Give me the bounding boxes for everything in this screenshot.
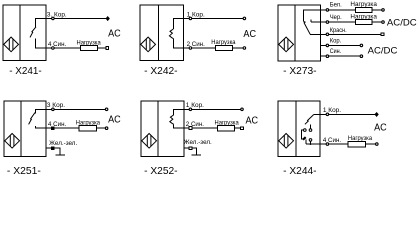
- wire 4 end circle: [376, 143, 379, 146]
- wire 1 brown: [183, 17, 243, 19]
- sensor body divider: [295, 101, 297, 156]
- terminal earth socket: [52, 147, 55, 150]
- wire 3 end plug: [106, 17, 109, 21]
- proximity sensor symbol (diamond): [142, 134, 157, 149]
- switch lever (NO contact): [30, 27, 36, 38]
- NC contact top stub: [173, 18, 183, 29]
- changeover lever: [304, 22, 311, 35]
- wire 2 end circle: [243, 47, 246, 50]
- diamond inner bar right: [13, 136, 15, 147]
- contact circle upper-left: [304, 129, 307, 132]
- terminal 2 socket: [189, 127, 192, 130]
- load resistor white: [356, 7, 372, 12]
- terminal 1 circle: [189, 17, 192, 20]
- svg-text:Нагрузка: Нагрузка: [215, 120, 240, 126]
- wire 3 end circle: [105, 108, 108, 111]
- wire 2 after load: [235, 127, 241, 129]
- sensor body divider: [157, 101, 159, 156]
- diamond inner bar right: [150, 136, 152, 147]
- svg-text:1 Кор.: 1 Кор.: [187, 12, 206, 18]
- svg-text:Бел.: Бел.: [330, 3, 342, 9]
- svg-text:Нагрузка: Нагрузка: [350, 14, 377, 20]
- wire 1 end plug: [375, 113, 378, 117]
- proximity sensor symbol (diamond): [4, 37, 19, 52]
- wire 4 blue: [320, 143, 348, 145]
- svg-text:Нагрузка: Нагрузка: [348, 136, 373, 142]
- svg-text:AC/DC: AC/DC: [387, 18, 417, 28]
- switch lever (NO contact): [29, 113, 35, 125]
- earth wire yellow-green: [184, 148, 196, 154]
- terminal 2 circle: [189, 47, 192, 50]
- wire 4 end socket: [106, 47, 109, 50]
- svg-text:Жел.-зел.: Жел.-зел.: [184, 140, 212, 146]
- sensor body divider: [157, 5, 159, 61]
- wire black: [320, 21, 355, 23]
- wire 4 after load: [98, 47, 106, 49]
- load resistor: [218, 125, 235, 130]
- load resistor: [348, 141, 366, 146]
- svg-text:AC: AC: [374, 123, 387, 134]
- black wire fixed contact: [311, 19, 320, 22]
- sensor body X242: [140, 5, 183, 61]
- svg-text:AC/DC: AC/DC: [368, 46, 398, 56]
- svg-text:- X251-: - X251-: [7, 166, 41, 177]
- svg-text:- X242-: - X242-: [144, 66, 178, 77]
- contact circle upper-right: [309, 129, 312, 132]
- wire 4 blue: [46, 47, 81, 49]
- svg-text:2 Син.: 2 Син.: [186, 122, 205, 128]
- wire blue end circle: [360, 55, 363, 58]
- load resistor: [79, 126, 97, 131]
- diamond inner bar left: [145, 39, 147, 50]
- diamond inner bar left: [9, 136, 11, 147]
- terminal circle white: [326, 9, 329, 12]
- sensor body divider: [19, 5, 21, 61]
- diamond inner bar left: [146, 136, 148, 147]
- terminal 3 circle: [52, 108, 55, 111]
- wire red: [320, 33, 381, 35]
- wire white end circle: [382, 9, 385, 12]
- sensor body divider: [20, 101, 22, 156]
- contact circle lower-right: [309, 139, 312, 142]
- switch contact bottom stub: [36, 39, 46, 48]
- terminal 1 circle: [326, 113, 329, 116]
- wire brown end circle: [360, 44, 363, 47]
- svg-text:Нагрузка: Нагрузка: [350, 2, 377, 8]
- svg-text:Чер.: Чер.: [330, 15, 342, 21]
- load resistor: [81, 46, 98, 51]
- ac output lever: [305, 114, 314, 124]
- svg-text:4 Син.: 4 Син.: [48, 122, 67, 128]
- wire 2 after load: [232, 47, 243, 49]
- NC contact top stub: [174, 109, 184, 115]
- diamond inner bar right: [287, 39, 289, 50]
- proximity sensor symbol (diamond): [279, 134, 294, 149]
- wire 2 end socket: [241, 127, 244, 130]
- wire 2 blue: [184, 127, 218, 129]
- svg-text:AC: AC: [108, 29, 121, 40]
- svg-text:3. Кор.: 3. Кор.: [47, 12, 67, 18]
- proximity sensor symbol (diamond): [279, 37, 294, 52]
- sensor body X241: [3, 5, 46, 61]
- svg-text:3 Кор.: 3 Кор.: [47, 103, 66, 109]
- bracket left branch: [302, 130, 304, 139]
- diamond inner bar right: [12, 39, 14, 50]
- wire white: [320, 9, 355, 11]
- terminal circle red: [326, 33, 329, 36]
- wire 2 blue: [183, 47, 215, 49]
- diamond inner bar right: [149, 39, 151, 50]
- wire 1 end circle: [243, 17, 246, 20]
- NC contact zigzag lever: [170, 115, 174, 124]
- ac output wire 1 stub: [314, 113, 320, 115]
- svg-text:- X241-: - X241-: [9, 66, 42, 77]
- wire 4 end circle: [105, 127, 108, 130]
- wire red end socket: [381, 33, 384, 36]
- svg-text:- X252-: - X252-: [144, 166, 178, 177]
- earth bar: [56, 154, 66, 156]
- terminal earth socket: [189, 147, 192, 150]
- common branch to red wire: [310, 33, 320, 35]
- diamond inner bar left: [283, 39, 285, 50]
- changeover contact: white wire branch: [304, 10, 321, 22]
- svg-text:Нагрузка: Нагрузка: [77, 40, 102, 46]
- wire brown: [320, 44, 360, 46]
- svg-text:Нагрузка: Нагрузка: [211, 40, 236, 46]
- terminal 4 circle: [326, 143, 329, 146]
- wire black end circle: [382, 21, 385, 24]
- NC contact bottom stub: [174, 124, 184, 128]
- svg-text:Красн.: Красн.: [330, 28, 347, 34]
- svg-text:4 Син.: 4 Син.: [48, 42, 67, 48]
- wire 3 brown: [46, 17, 106, 19]
- earth bar: [191, 154, 201, 156]
- wire 4 blue: [46, 127, 79, 129]
- diamond inner bar right: [287, 136, 289, 147]
- sensor body X252: [141, 101, 184, 156]
- svg-text:2 Син.: 2 Син.: [187, 42, 206, 48]
- wire black after load: [372, 21, 382, 23]
- switch contact top stub: [35, 109, 46, 113]
- sensor body divider: [294, 5, 296, 61]
- terminal circle blue: [326, 55, 329, 58]
- wire blue: [320, 55, 360, 57]
- sensor body X273: [278, 5, 320, 61]
- wire 1 brown: [320, 113, 375, 115]
- terminal 4 socket: [52, 127, 55, 130]
- svg-text:- X244-: - X244-: [283, 166, 317, 177]
- NC contact zigzag lever: [169, 29, 173, 39]
- svg-text:Жел.-зел.: Жел.-зел.: [49, 141, 77, 147]
- proximity sensor symbol (diamond): [5, 134, 20, 149]
- wire 1 brown: [184, 108, 241, 110]
- svg-text:AC: AC: [243, 29, 256, 40]
- wire 3 brown: [46, 108, 105, 110]
- load resistor black: [356, 20, 372, 25]
- switch contact top stub: [36, 18, 46, 27]
- diamond inner bar left: [283, 136, 285, 147]
- contact stub lower-right: [310, 141, 312, 144]
- svg-text:AC: AC: [108, 114, 121, 125]
- proximity sensor symbol (diamond): [141, 37, 156, 52]
- junction dot: [310, 143, 312, 145]
- terminal 1 circle: [189, 108, 192, 111]
- sensor body X251: [4, 101, 46, 156]
- wire 4 after load: [96, 127, 105, 129]
- sensor body X244: [278, 101, 320, 156]
- wire 4 after load: [366, 143, 376, 145]
- svg-text:1 Кор.: 1 Кор.: [323, 108, 342, 114]
- svg-text:Нагрузка: Нагрузка: [76, 120, 101, 126]
- lever hook lower-left: [303, 137, 306, 140]
- wire 1 end circle: [241, 108, 244, 111]
- terminal circle black: [326, 21, 329, 24]
- output joining path: [306, 140, 320, 144]
- switch contact bottom stub: [36, 126, 46, 128]
- wire white after load: [372, 9, 382, 11]
- svg-text:4 Син.: 4 Син.: [323, 138, 342, 144]
- terminal 4 circle: [52, 47, 55, 50]
- svg-text:Син.: Син.: [330, 49, 342, 55]
- svg-text:Кор.: Кор.: [330, 38, 342, 44]
- svg-text:AC: AC: [246, 115, 259, 126]
- diamond inner bar left: [8, 39, 10, 50]
- svg-text:1 Кор.: 1 Кор.: [186, 103, 205, 109]
- terminal 3 circle: [52, 17, 55, 20]
- earth wire yellow-green: [46, 148, 60, 154]
- contact stub right branch: [310, 125, 312, 129]
- terminal circle brown: [326, 44, 329, 47]
- NC contact bottom stub: [173, 39, 183, 48]
- load resistor: [215, 45, 232, 50]
- svg-text:- X273-: - X273-: [283, 66, 317, 77]
